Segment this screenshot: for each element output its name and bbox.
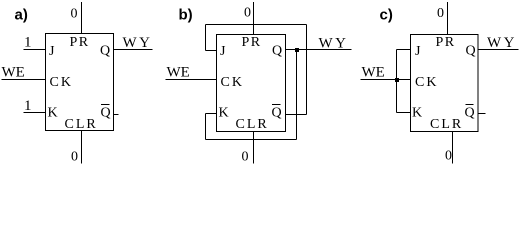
svg-text:CLR: CLR (65, 117, 98, 132)
svg-text:WY: WY (319, 36, 349, 52)
svg-text:0: 0 (244, 6, 251, 21)
svg-text:PR: PR (436, 35, 456, 50)
svg-text:c): c) (380, 7, 393, 24)
svg-text:0: 0 (437, 6, 444, 21)
svg-text:J: J (415, 44, 421, 59)
svg-text:0: 0 (445, 149, 452, 164)
svg-text:K: K (412, 106, 422, 121)
svg-text:Q: Q (101, 106, 111, 121)
svg-text:J: J (220, 44, 226, 59)
svg-text:WE: WE (2, 65, 25, 81)
svg-text:CK: CK (415, 75, 438, 90)
svg-text:K: K (219, 106, 229, 121)
svg-text:K: K (48, 106, 58, 121)
svg-text:WY: WY (487, 35, 517, 51)
svg-text:Q: Q (272, 44, 282, 59)
svg-text:0: 0 (71, 7, 78, 22)
svg-text:Q: Q (100, 44, 110, 59)
svg-text:CLR: CLR (430, 117, 463, 132)
svg-text:WY: WY (123, 35, 153, 51)
svg-text:J: J (49, 44, 55, 59)
svg-text:WE: WE (362, 65, 385, 81)
svg-text:Q: Q (466, 44, 476, 59)
svg-text:0: 0 (71, 150, 78, 165)
svg-text:Q: Q (465, 106, 475, 121)
svg-text:PR: PR (70, 35, 90, 50)
svg-text:a): a) (15, 7, 28, 24)
svg-text:CLR: CLR (236, 117, 269, 132)
svg-text:CK: CK (50, 75, 73, 90)
svg-text:b): b) (179, 7, 193, 24)
svg-text:PR: PR (242, 35, 262, 50)
svg-text:0: 0 (242, 150, 249, 165)
svg-text:Q: Q (272, 106, 282, 121)
svg-text:1: 1 (24, 35, 32, 51)
svg-text:WE: WE (167, 65, 190, 81)
svg-text:1: 1 (24, 98, 32, 114)
svg-text:CK: CK (221, 75, 244, 90)
